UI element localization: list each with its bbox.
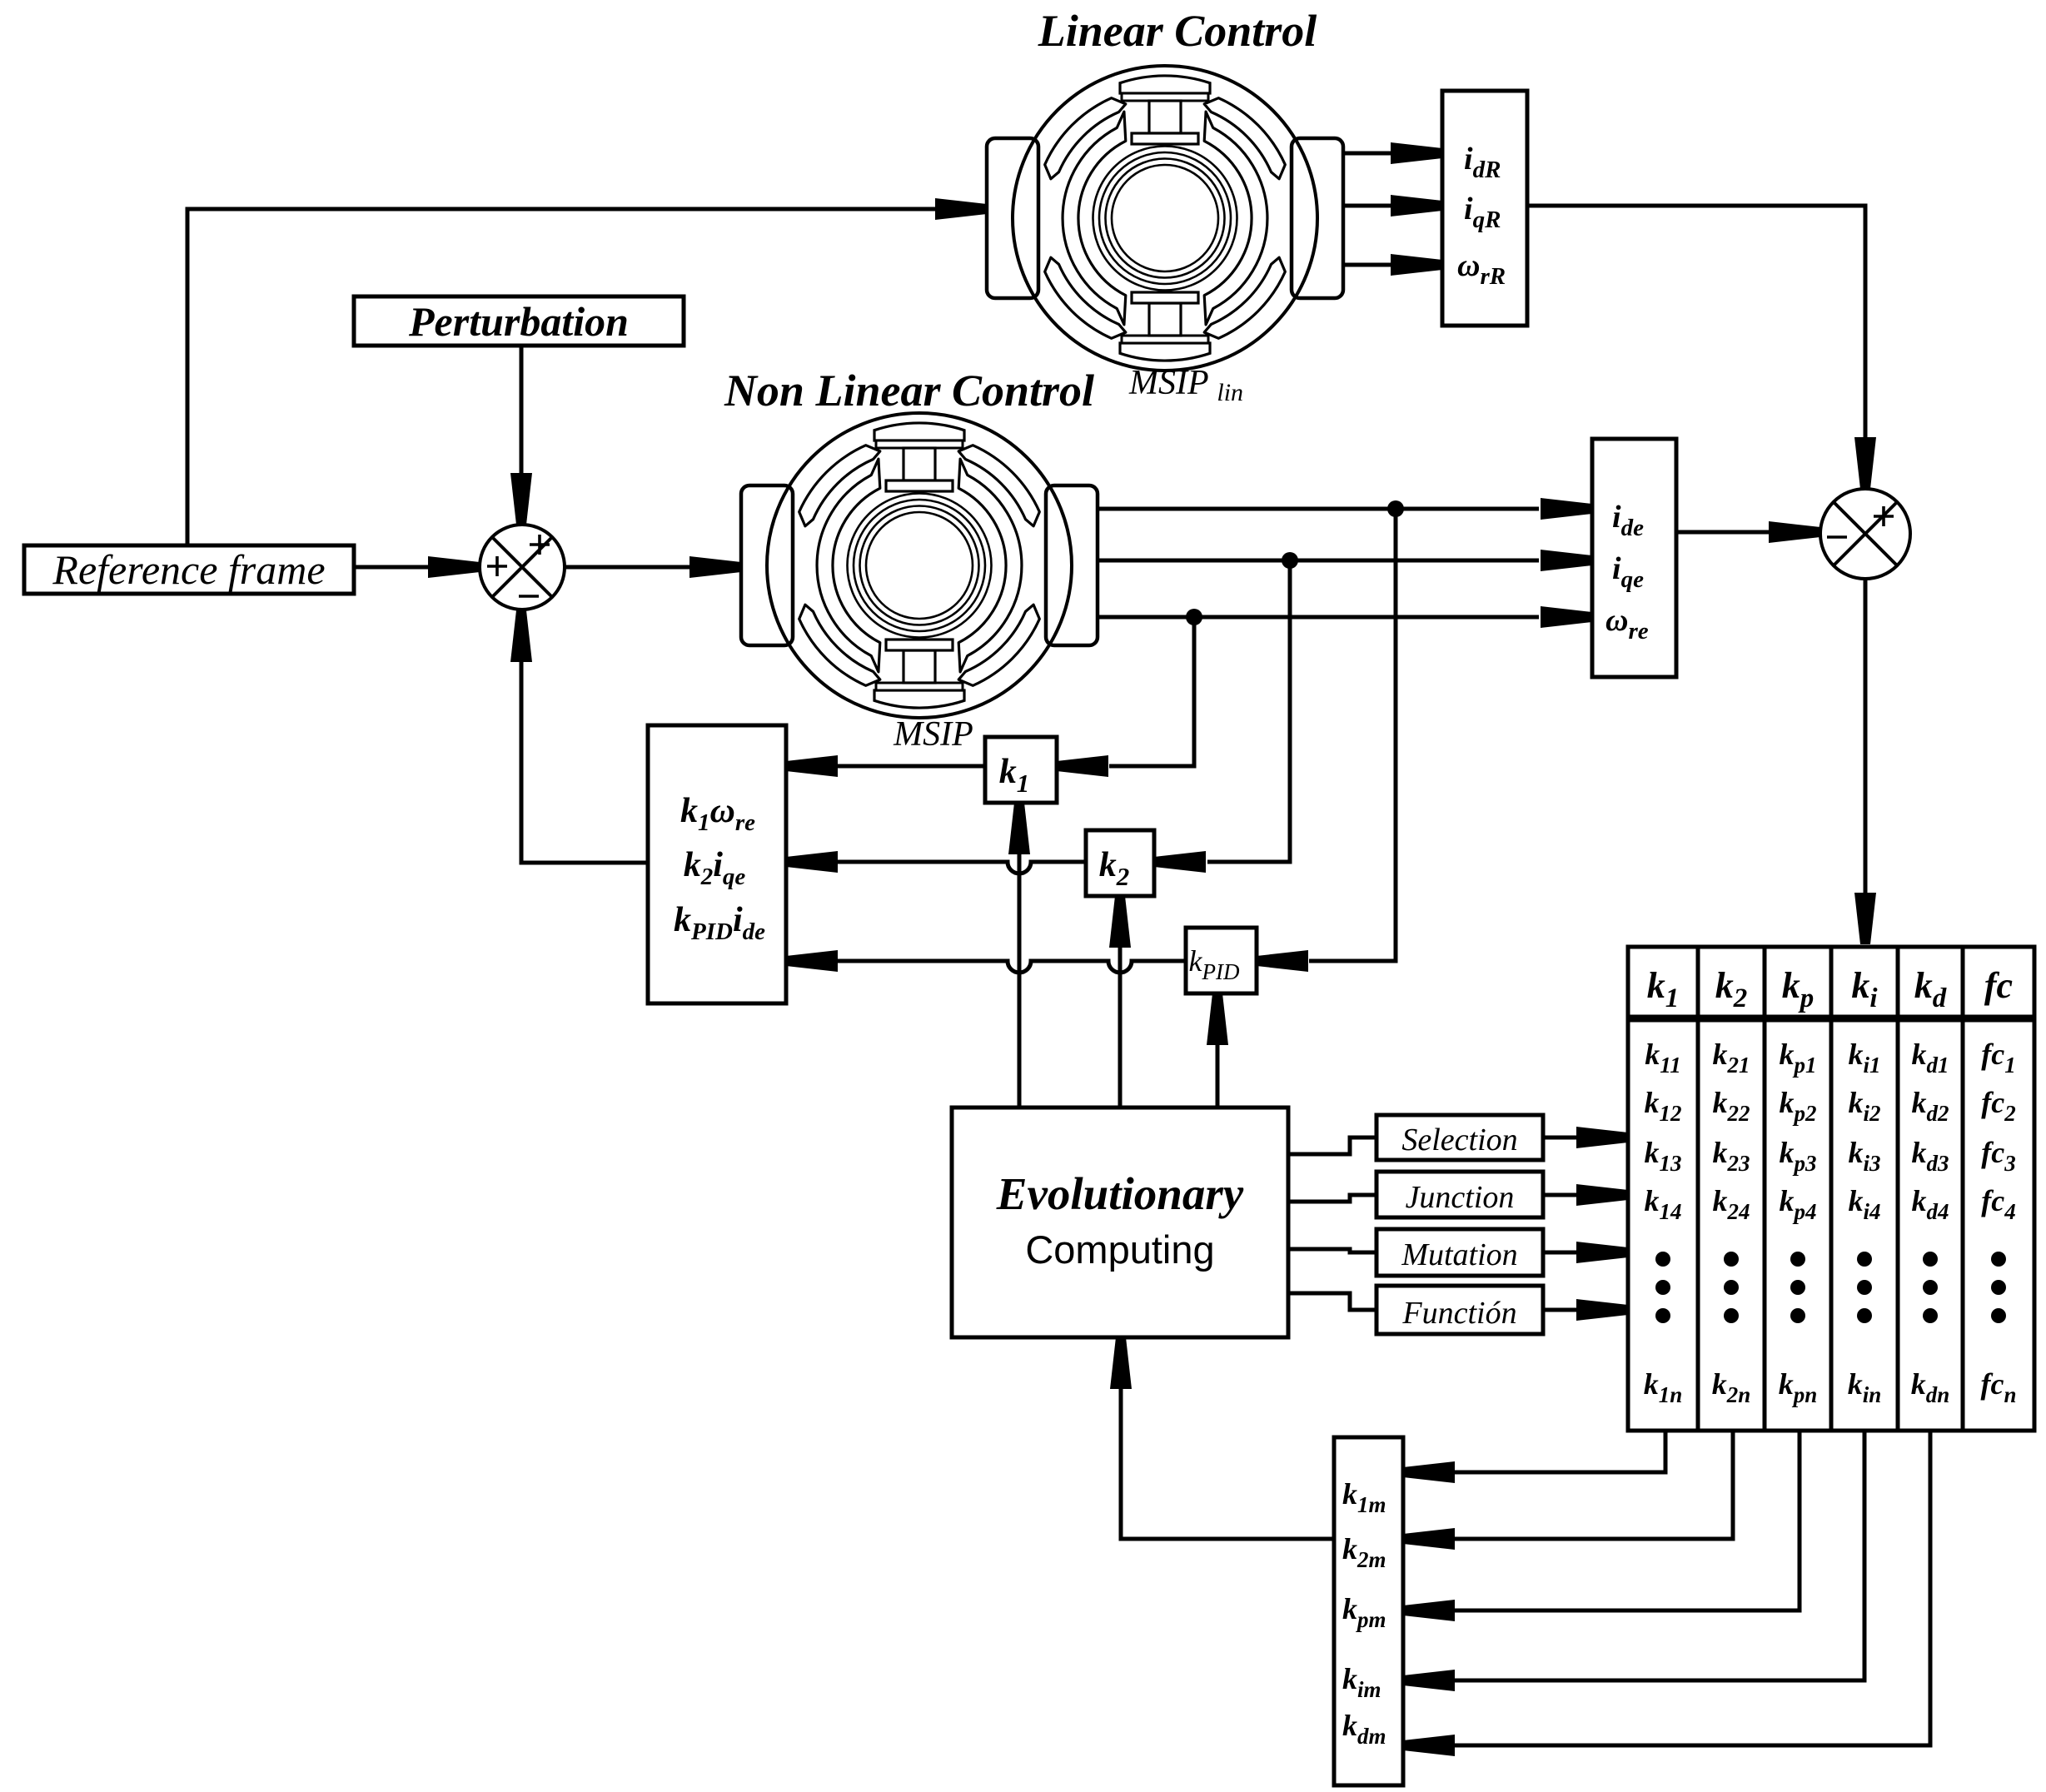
block: gain k2 [1086, 830, 1154, 896]
svg-text:Linear Control: Linear Control [1038, 6, 1317, 56]
wire: evolutionary computing riser to k1 [1008, 803, 1030, 1108]
wire: kPID output to gain block with hops over k1 and k2 risers [786, 950, 1186, 973]
wire: EC to Selection box [1288, 1137, 1376, 1154]
svg-text:Selection: Selection [1401, 1122, 1517, 1157]
table: gains population body cells with candidate values [1628, 1020, 2034, 1431]
motor U1: MSIP lin (Linear Control plant) [987, 66, 1343, 371]
wire: nonlinear output iqe [1098, 550, 1592, 571]
wire: reference frame to summing junction S1 [354, 556, 480, 578]
svg-text:Evolutionary: Evolutionary [996, 1168, 1244, 1219]
svg-text:MSIP: MSIP [893, 715, 973, 754]
block: measured outputs box ide iqe wre [1592, 439, 1676, 677]
block: Function [1376, 1286, 1543, 1334]
motor U2: MSIP (Non Linear Control plant) [741, 413, 1098, 718]
wire: perturbation drop to summing junction S1 [510, 346, 532, 525]
wire: EC to Junction box [1288, 1195, 1376, 1202]
wire: wre tap down to k1 [1057, 617, 1194, 777]
wire: linear MSIP output wrR [1343, 254, 1442, 276]
block: Junction [1376, 1172, 1543, 1217]
wire: evolutionary computing riser to kPID [1207, 993, 1228, 1108]
summing junction S1 (reference + perturbation - feedback) [480, 525, 565, 610]
wire: Mutation to table [1543, 1242, 1628, 1263]
wire: kd column stub to memory block [1403, 1431, 1930, 1756]
wire: Selection to table [1543, 1127, 1628, 1148]
wire: nonlinear output wre [1098, 606, 1592, 628]
svg-text:Perturbation: Perturbation [408, 298, 629, 345]
wire: ide tap down to kPID [1257, 509, 1396, 972]
wire: summing junction S2 output down to gains table [1854, 579, 1876, 944]
wire: EC to Function box [1288, 1293, 1376, 1310]
svg-text:Non Linear Control: Non Linear Control [724, 366, 1094, 416]
block: gain k1 [985, 737, 1057, 803]
svg-text:fc: fc [1984, 965, 2013, 1006]
wire: Function to table [1543, 1299, 1628, 1321]
wire: feedback from gain block to summing junction S1 [510, 610, 648, 863]
wire: summing junction S1 to nonlinear MSIP input [565, 556, 741, 578]
svg-text:Mutation: Mutation [1401, 1237, 1517, 1272]
wire: iqe tap down to k2 [1154, 560, 1290, 873]
wire: EC to Mutation box [1288, 1249, 1376, 1252]
node: tap on wre line [1186, 609, 1202, 625]
block: Mutation [1376, 1229, 1543, 1276]
wire: iqR reference to right summing junction [1527, 206, 1876, 489]
svg-text:Functión: Functión [1401, 1296, 1516, 1331]
svg-text:Computing: Computing [1025, 1227, 1214, 1272]
wire: reference frame riser to linear MSIP input [187, 198, 987, 545]
wire: evolutionary computing riser to k2 [1109, 896, 1131, 1108]
svg-text:Junction: Junction [1406, 1180, 1515, 1215]
wire: ki column stub to memory block [1403, 1431, 1864, 1691]
node: tap on iqe line [1282, 552, 1298, 569]
block: Selection [1376, 1115, 1543, 1160]
node: tap on ide line [1387, 500, 1404, 517]
table: gains population (headers k1 k2 kp ki kd fc) [1628, 947, 2034, 1017]
wire: kp column stub to memory block [1403, 1431, 1800, 1621]
block: Perturbation [354, 296, 684, 346]
wire: ide box to right summing junction S2 [1676, 521, 1820, 543]
block: selected gains memory k1m..kdm [1334, 1437, 1403, 1785]
wire: k1 output to gain block [786, 755, 985, 777]
wire: k2 column stub to memory block [1403, 1431, 1733, 1550]
block: Evolutionary Computing [952, 1108, 1288, 1337]
block: linear reference outputs box idR iqR wrR [1442, 91, 1527, 326]
wire: linear MSIP output idR [1343, 142, 1442, 164]
svg-text:Reference frame: Reference frame [52, 546, 325, 593]
wire: Junction to table [1543, 1184, 1628, 1206]
wire: linear MSIP output iqR [1343, 195, 1442, 217]
wire: nonlinear output ide [1098, 498, 1592, 520]
summing junction S2 (reference - measured) [1820, 489, 1910, 579]
block: nonlinear gains product block k1wre k2iqe kPIDide [648, 725, 786, 1003]
wire: k1 column stub to memory block [1403, 1431, 1665, 1483]
wire: k2 output to gain block with hop over k1 riser [786, 851, 1086, 874]
block: Reference frame [24, 545, 354, 594]
wire: memory block to evolutionary computing [1110, 1337, 1334, 1539]
block: gain kPID [1186, 928, 1257, 993]
